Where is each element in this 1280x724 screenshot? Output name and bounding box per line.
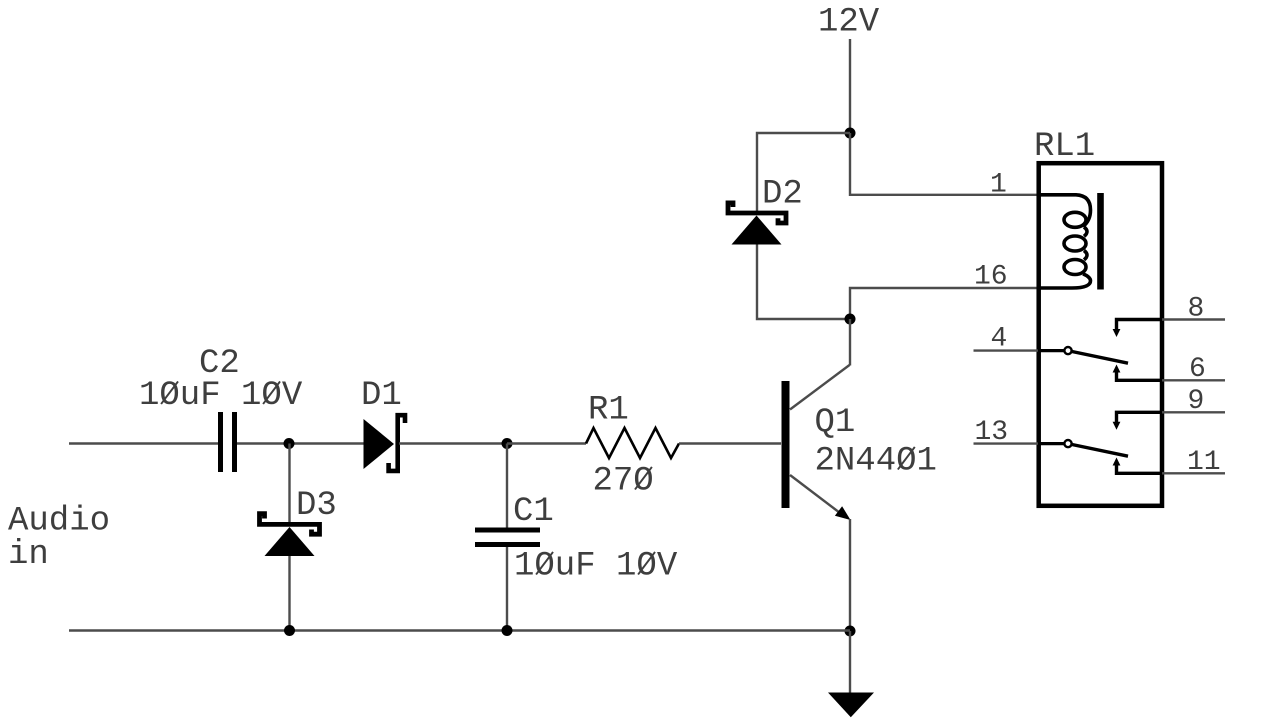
relay switch 2 arm: [1072, 445, 1128, 457]
wire collector vertical: [849, 319, 851, 366]
diode D2 (schottky): [728, 203, 786, 223]
wire 12V node down to relay pin 1: [850, 133, 1038, 195]
wire R1 to Q1 base: [679, 442, 781, 444]
wire relay pin 13: [974, 442, 1039, 444]
relay coil loop 1: [1064, 212, 1086, 227]
relay pin 4 inner lead: [1038, 349, 1064, 352]
svg-text:2N44Ø1: 2N44Ø1: [815, 443, 937, 481]
diode D3 (schottky): [260, 514, 320, 535]
svg-text:C1: C1: [513, 493, 554, 531]
svg-text:1: 1: [990, 170, 1007, 201]
relay RL1 body: [1039, 163, 1162, 506]
svg-text:Q1: Q1: [815, 404, 856, 442]
svg-text:6: 6: [1189, 354, 1206, 385]
relay switch 1 arm: [1072, 352, 1128, 364]
svg-text:D3: D3: [296, 487, 337, 525]
svg-text:RL1: RL1: [1034, 128, 1095, 166]
svg-text:1ØuF 1ØV: 1ØuF 1ØV: [139, 377, 303, 415]
wire relay pin 11: [1162, 472, 1225, 474]
wire top rail left segment (audio in to C2): [69, 442, 218, 444]
node junction C2/D3: [284, 438, 295, 449]
node junction C1/bottom rail: [502, 625, 513, 636]
diode D1 (schottky): [364, 419, 395, 469]
wire D3 cathode to bottom rail: [288, 556, 290, 631]
relay coil connector 1-2: [1084, 227, 1087, 236]
svg-text:4: 4: [991, 324, 1008, 355]
transistor Q1 emitter arrow: [835, 506, 851, 520]
relay coil exit arc: [1038, 274, 1091, 288]
capacitor C2: [218, 412, 223, 472]
wire D3 anode branch down: [288, 444, 290, 524]
ground: [828, 693, 874, 718]
relay pin 13 inner lead: [1038, 442, 1064, 445]
wire relay pin 8: [1162, 318, 1225, 320]
capacitor C1: [475, 528, 540, 533]
svg-text:D2: D2: [762, 176, 803, 214]
relay pin 6 contact with arrow: [1117, 372, 1163, 381]
resistor R1: [586, 428, 679, 458]
svg-text:27Ø: 27Ø: [593, 463, 654, 501]
wire D1 to C1 node: [399, 442, 507, 444]
svg-text:12V: 12V: [818, 4, 880, 42]
wire emitter down to bottom rail: [849, 519, 851, 631]
wire C1 to bottom rail: [506, 547, 508, 631]
svg-text:16: 16: [974, 262, 1008, 293]
transistor Q1 emitter slant: [790, 475, 842, 515]
wire D2 anode down and right to node: [757, 245, 850, 320]
wire relay pin 9: [1162, 411, 1225, 413]
wire relay pin 16 to collector node: [850, 288, 1038, 319]
relay coil connector 2-3: [1084, 251, 1087, 260]
relay pin 11 contact with arrow: [1117, 465, 1163, 474]
wire C2 to D1: [237, 442, 364, 444]
transistor Q1 collector slant: [790, 365, 850, 410]
node junction D3/bottom rail: [284, 625, 295, 636]
relay core bar: [1097, 193, 1104, 290]
svg-text:11: 11: [1187, 447, 1221, 478]
relay pin 9 contact with arrow: [1117, 412, 1163, 423]
svg-text:in: in: [8, 536, 49, 574]
svg-text:Audio: Audio: [8, 503, 110, 541]
node junction emitter/bottom rail: [845, 626, 856, 637]
node junction D1/C1/R1: [502, 438, 513, 449]
wire relay pin 4: [974, 349, 1039, 351]
wire C1 branch down: [506, 444, 508, 529]
svg-text:1ØuF 1ØV: 1ØuF 1ØV: [514, 548, 678, 586]
svg-text:8: 8: [1188, 294, 1205, 325]
wire node to D2 top corner: [757, 133, 850, 211]
node junction 12V/D2/pin1: [845, 128, 856, 139]
wire relay pin 6: [1162, 379, 1225, 381]
wire ground stem: [849, 631, 851, 693]
node junction D2/pin16/collector: [845, 314, 856, 325]
svg-text:R1: R1: [588, 392, 629, 430]
svg-text:D1: D1: [361, 377, 402, 415]
relay coil loop 3: [1064, 260, 1086, 275]
relay switch 1 pivot: [1064, 347, 1071, 354]
wire 12V down to node: [849, 39, 851, 133]
transistor Q1 base bar: [782, 381, 790, 508]
relay coil entry arc: [1038, 195, 1091, 227]
relay pin 8 contact with arrow: [1117, 320, 1163, 331]
svg-text:9: 9: [1188, 386, 1205, 417]
svg-text:13: 13: [975, 417, 1009, 448]
wire bottom rail: [69, 629, 850, 631]
wire node to R1: [507, 442, 586, 444]
relay switch 2 pivot: [1064, 440, 1071, 447]
relay coil loop 2: [1064, 236, 1086, 251]
